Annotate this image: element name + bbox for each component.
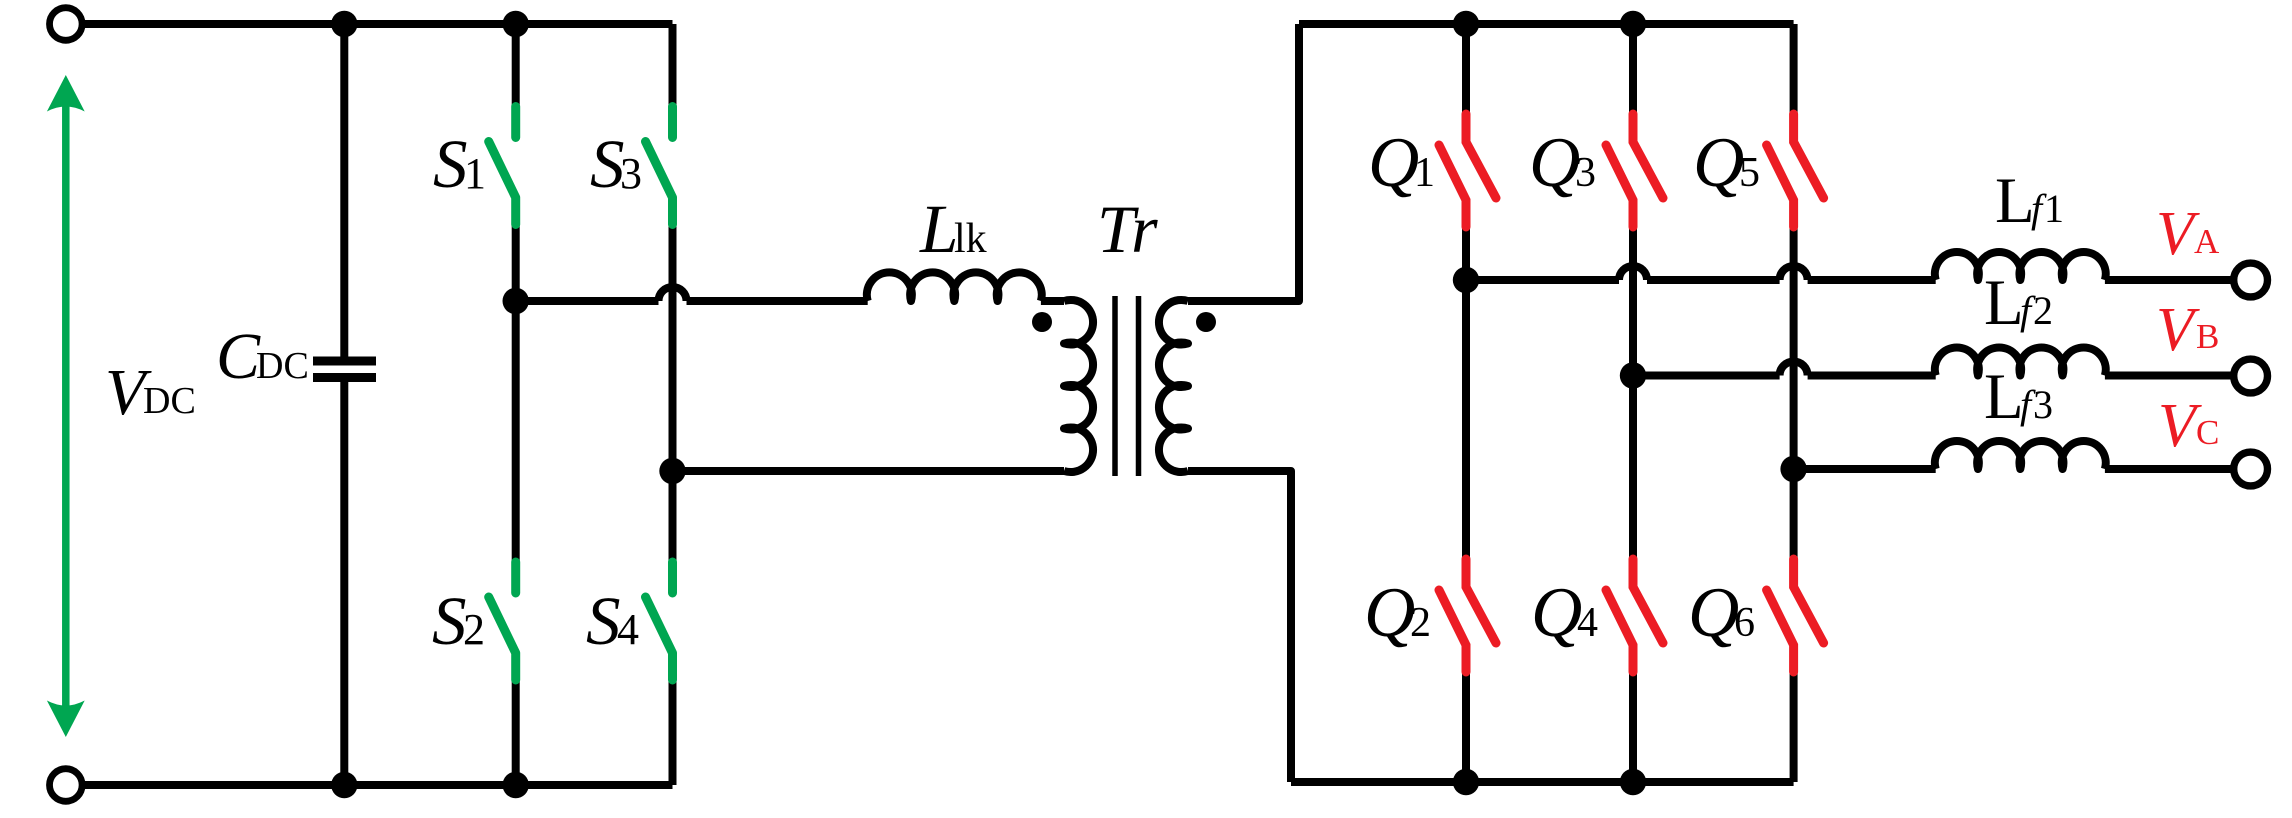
label Lf2 [1984,267,2053,339]
svg-text:4: 4 [1577,600,1598,646]
svg-text:S: S [432,583,467,659]
label S1 [433,126,486,202]
transformer Tr core [1115,296,1139,476]
wire Lf3 to terminal VC [2105,465,2233,473]
wire bridge mid node to hop [516,297,659,305]
inductor Lf1 [1935,252,2106,280]
wire phase B row [1633,372,1780,380]
dot transformer secondary polarity [1196,312,1216,332]
terminal VC [2234,452,2268,486]
svg-text:DC: DC [143,380,196,422]
terminal DC minus [50,769,83,802]
label Q5 [1693,124,1760,202]
svg-text:L: L [1984,361,2024,433]
svg-text:B: B [2196,317,2219,356]
svg-text:Q: Q [1693,124,1744,202]
label VC [2158,392,2219,460]
node bottom rail capacitor [331,772,357,798]
svg-text:Q: Q [1364,574,1415,652]
wire top-right rail [1299,20,1794,28]
svg-text:L: L [1984,267,2024,339]
label Lf1 [1995,165,2064,237]
svg-text:DC: DC [256,345,309,387]
wire hop phase A over Q3 leg [1619,266,1647,280]
switch S1 [489,107,516,225]
dot transformer primary polarity [1032,312,1052,332]
node S3-S4 midpoint [659,458,685,484]
wire S1-S2 leg bottom [512,679,520,785]
label Q1 [1368,124,1435,202]
svg-text:V: V [2156,296,2200,364]
wire S3-S4 leg top [669,24,677,108]
switch S4 [646,562,673,680]
label VA [2156,200,2220,268]
inductor Lf2 [1935,347,2106,375]
svg-text:3: 3 [2033,382,2053,427]
switch S2 [489,562,516,680]
wire Q5-Q6 leg bottom [1790,670,1798,782]
switch Q4 [1606,559,1663,672]
node phase A [1453,267,1479,293]
svg-text:3: 3 [1575,150,1596,196]
svg-text:1: 1 [1414,150,1435,196]
wire secondary bottom to rail [1188,471,1291,782]
label Q6 [1688,574,1755,652]
wire phase B row 2 [1808,372,1936,380]
switch Q5 [1767,114,1824,227]
wire S3-S4 leg bottom [669,679,677,785]
wire hop phase B over Q5 leg [1780,362,1808,376]
transformer Tr secondary winding [1159,300,1188,472]
switch Q6 [1767,559,1824,672]
node bottom rail Q4 [1620,769,1646,795]
wire Llk to transformer [1041,297,1064,305]
label Q4 [1531,574,1598,652]
node phase B [1620,362,1646,388]
switch Q2 [1439,559,1496,672]
terminal VB [2234,359,2268,393]
wire bottom-left rail [83,781,673,789]
inductor Lf3 [1935,441,2106,469]
terminal DC plus [50,8,83,41]
capacitor CDC top lead [340,24,348,357]
svg-text:Q: Q [1688,574,1739,652]
wire S1-S2 leg middle [512,223,520,563]
node bottom rail Q2 [1453,769,1479,795]
wire secondary top to rail [1188,24,1299,301]
inductor Llk [867,272,1042,301]
label CDC [216,320,309,393]
svg-text:lk: lk [954,216,987,262]
switch S3 [646,107,673,225]
wire S1-S2 leg top [512,24,520,108]
arrow VDC [47,75,85,737]
wire phase A row [1466,276,1619,284]
label VB [2156,296,2219,364]
svg-text:2: 2 [463,605,485,654]
node phase C [1780,456,1806,482]
label S3 [590,126,642,202]
svg-text:2: 2 [2033,288,2053,333]
wire Q5-Q6 leg middle [1790,225,1798,561]
svg-text:S: S [586,583,621,659]
svg-text:Q: Q [1529,124,1580,202]
svg-text:C: C [2196,413,2219,452]
wire Q1-Q2 leg bottom [1462,670,1470,782]
svg-text:4: 4 [617,605,639,654]
terminal VA [2234,263,2268,297]
node bottom rail S2 [503,772,529,798]
svg-text:3: 3 [620,149,642,198]
node top rail Q3 [1620,11,1646,37]
svg-text:C: C [216,320,261,393]
node top rail capacitor [331,11,357,37]
svg-text:1: 1 [464,149,486,198]
svg-text:5: 5 [1739,150,1760,196]
svg-text:L: L [919,191,958,267]
svg-text:6: 6 [1734,600,1755,646]
wire hop over S3 leg [659,287,687,301]
svg-text:1: 1 [2044,186,2064,231]
capacitor CDC bottom lead [340,382,348,785]
wire Q3-Q4 leg bottom [1629,670,1637,782]
wire Q3-Q4 leg top [1629,24,1637,116]
wire Q1-Q2 leg top [1462,24,1470,116]
wire top-left rail [83,20,673,28]
svg-text:S: S [433,126,468,202]
node S1-S2 midpoint [503,288,529,314]
wire Q3-Q4 leg middle [1629,225,1637,561]
label S4 [586,583,639,659]
label Lf3 [1984,361,2053,433]
wire phase C row [1794,465,1936,473]
label VDC [105,356,196,429]
wire bottom-right rail [1291,778,1794,786]
svg-text:Tr: Tr [1097,191,1158,267]
wire hop phase A over Q5 leg [1780,266,1808,280]
svg-text:Q: Q [1531,574,1582,652]
transformer Tr primary winding [1064,300,1093,472]
svg-text:L: L [1995,165,2035,237]
node top rail Q1 [1453,11,1479,37]
wire Lf2 to terminal VB [2105,372,2233,380]
label Llk [919,191,987,267]
label Q2 [1364,574,1431,652]
capacitor CDC plates [313,361,376,378]
wire phase A row 2 [1647,276,1780,284]
svg-text:A: A [2194,222,2220,261]
switch Q1 [1439,114,1496,227]
wire primary bottom [673,467,1065,475]
wire phase A row 3 [1808,276,1936,284]
label S2 [432,583,485,659]
wire S3-S4 leg middle [669,223,677,563]
node top rail S1 [503,11,529,37]
svg-text:2: 2 [1410,600,1431,646]
wire Q5-Q6 leg top [1790,24,1798,116]
switch Q3 [1606,114,1663,227]
wire Lf1 to terminal VA [2105,276,2233,284]
wire Q1-Q2 leg middle [1462,225,1470,561]
svg-text:Q: Q [1368,124,1419,202]
wire hop to Llk [687,297,868,305]
label Q3 [1529,124,1596,202]
